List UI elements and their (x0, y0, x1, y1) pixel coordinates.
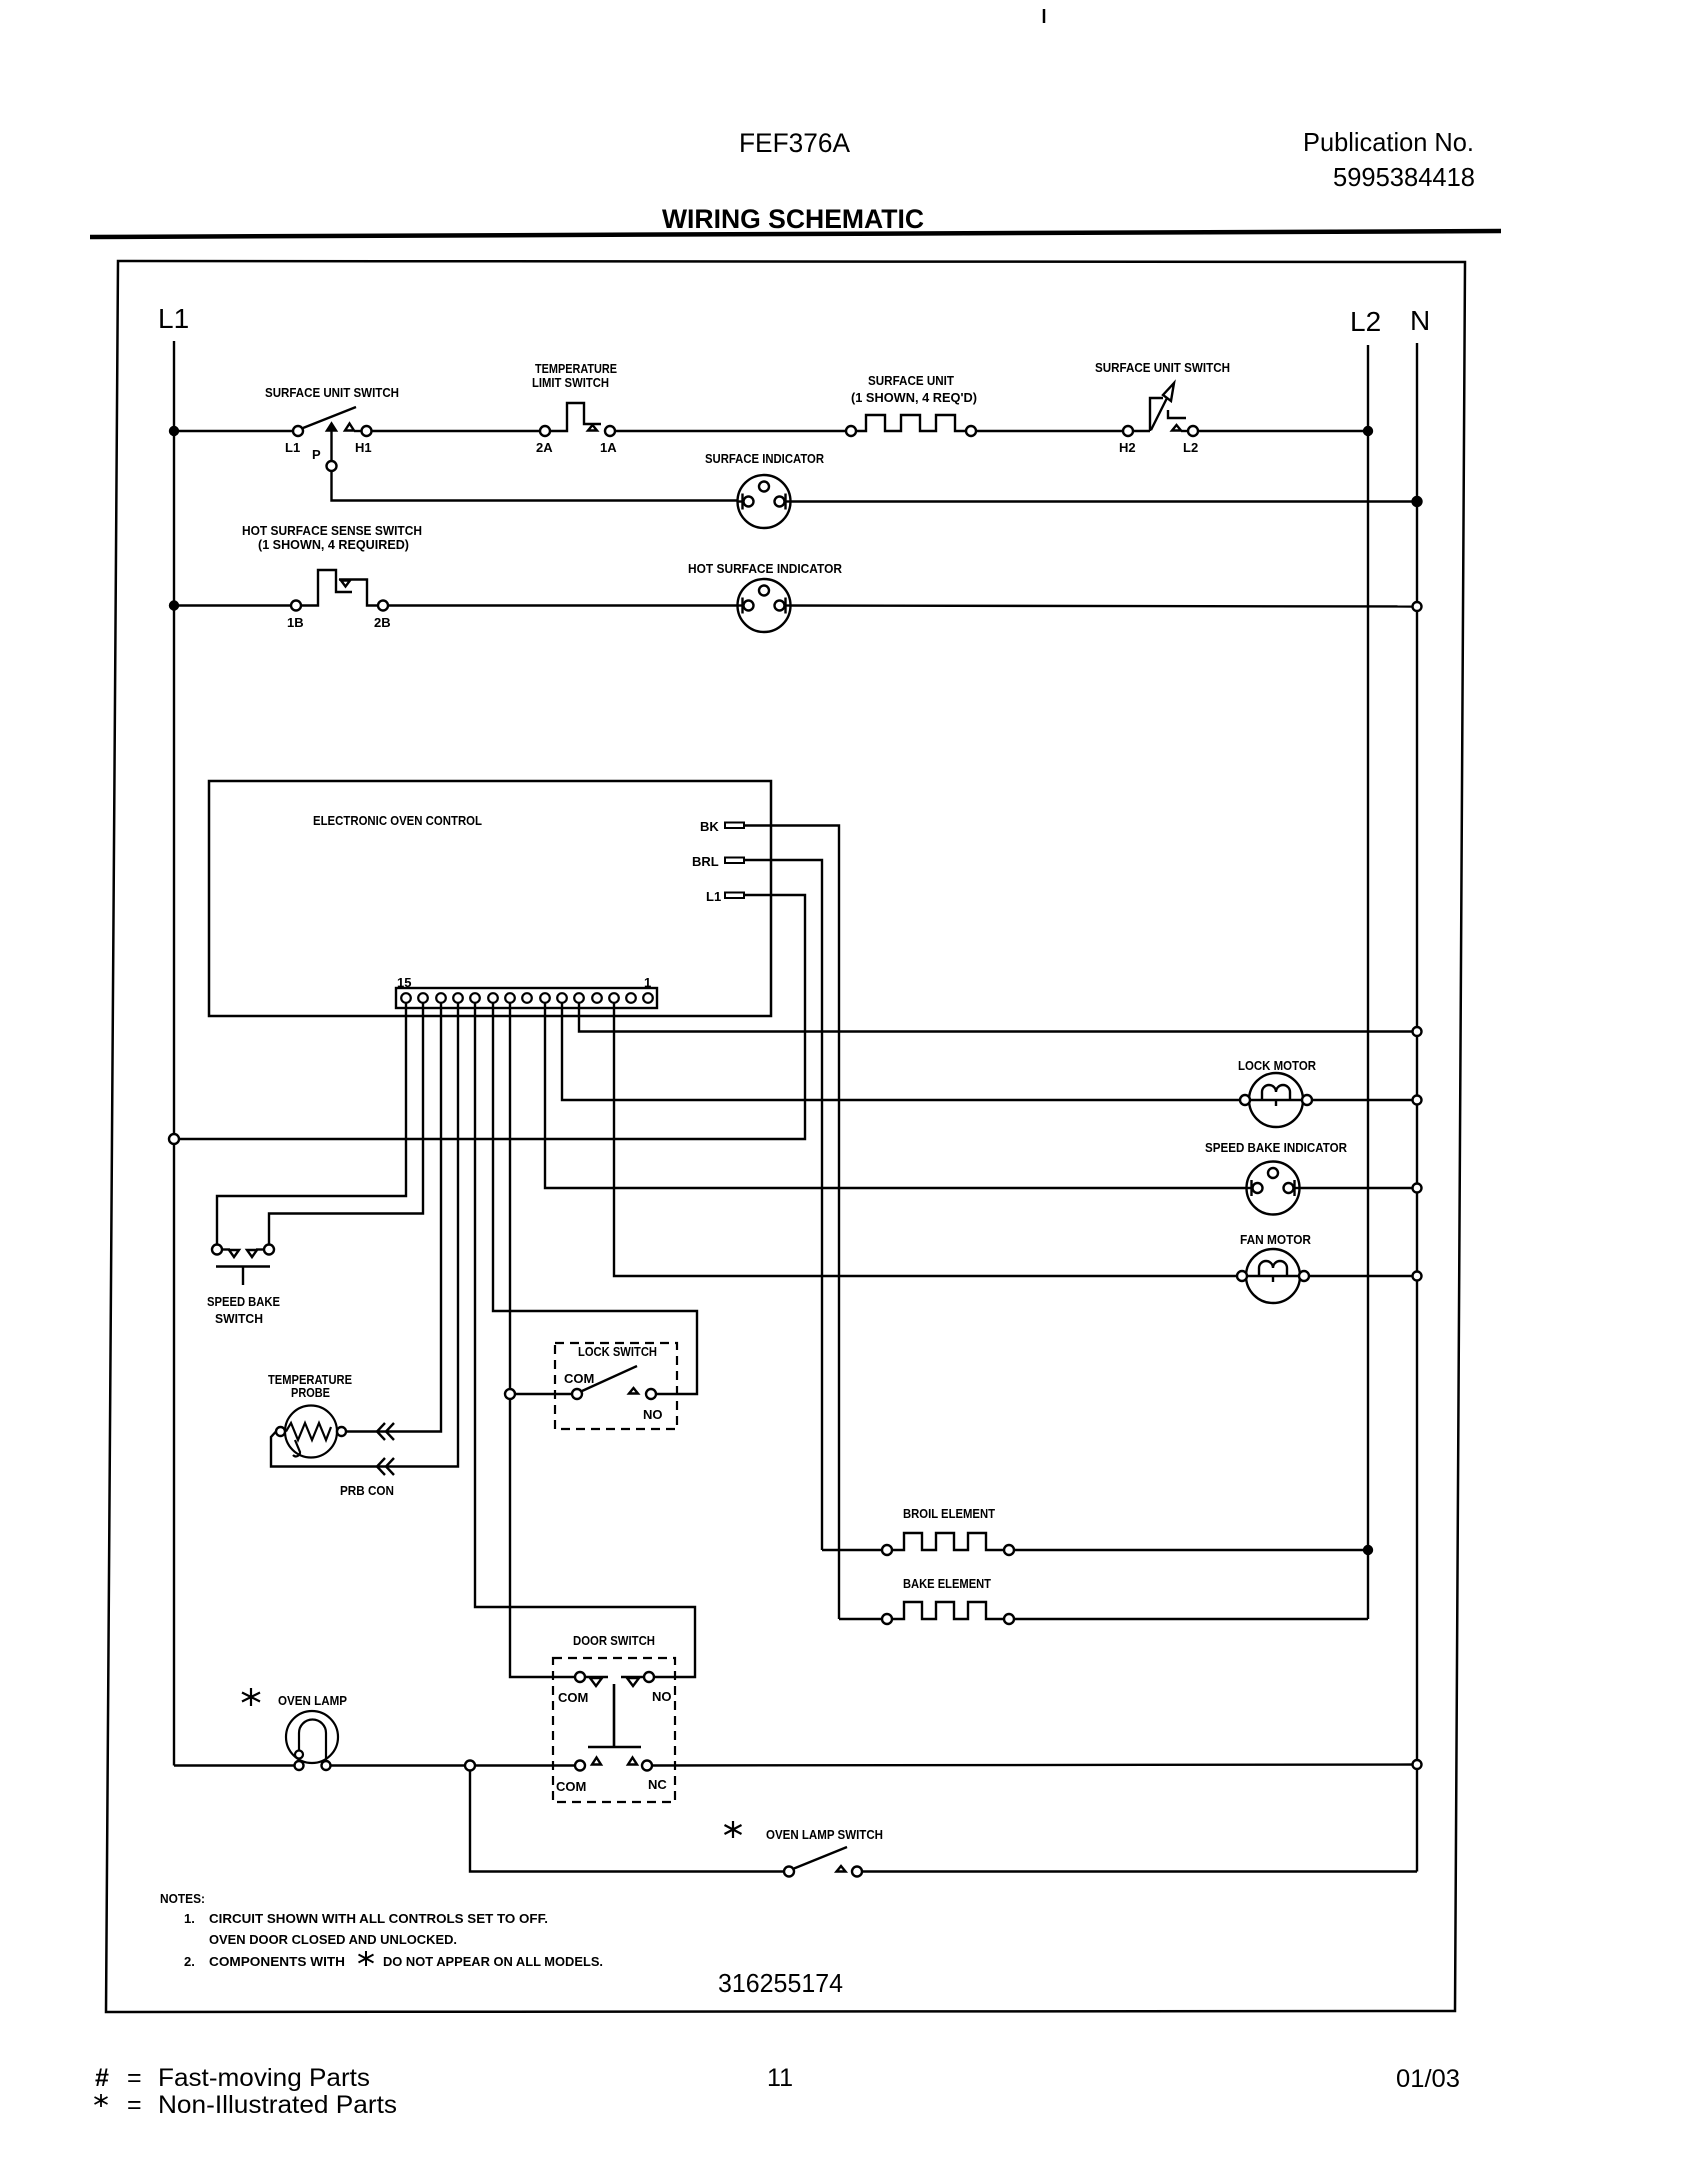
terminal 2A (540, 426, 550, 436)
svg-text:Fast-moving Parts: Fast-moving Parts (158, 2064, 370, 2092)
svg-text:L2: L2 (1183, 440, 1198, 455)
switch S1 terminal L1 (293, 426, 303, 436)
wire pin14 to speed bake switch right (269, 1003, 423, 1245)
broil element left terminal (882, 1545, 892, 1555)
terminal strip (396, 988, 657, 1008)
wire surface indicator to N (778, 500, 1417, 502)
junction circle N fan motor (1413, 1272, 1422, 1281)
svg-text:#: # (95, 2064, 109, 2092)
oven lamp switch left terminal (784, 1867, 794, 1877)
door switch housing (dashed) (553, 1658, 675, 1802)
wire pin11 to door switch NO (475, 1003, 695, 1677)
svg-text:LOCK MOTOR: LOCK MOTOR (1238, 1058, 1317, 1073)
svg-text:1A: 1A (600, 440, 617, 455)
svg-text:PROBE: PROBE (291, 1385, 330, 1400)
terminal L2 (1188, 426, 1198, 436)
junction dot L2 broil (1364, 1546, 1372, 1554)
wire pin12 to temperature probe left (271, 1003, 458, 1467)
terminal circle lock switch tap on pin9 wire (505, 1389, 515, 1399)
door switch top triangle left (590, 1678, 602, 1686)
svg-text:2A: 2A (536, 440, 553, 455)
temperature probe (276, 1406, 346, 1458)
surface unit right terminal (966, 426, 976, 436)
footer asterisk (95, 2094, 108, 2107)
svg-text:2.: 2. (184, 1954, 195, 1969)
svg-text:L2: L2 (1350, 306, 1381, 337)
lock switch NO terminal (646, 1389, 656, 1399)
wire BRL to broil left (822, 1549, 882, 1551)
svg-text:NOTES:: NOTES: (160, 1891, 205, 1906)
wire pin5 to N (579, 1003, 1417, 1032)
limit switch body (550, 403, 601, 431)
junction dot L1 row1 (170, 427, 178, 435)
speed bake switch actuator bar (216, 1267, 270, 1286)
wire 1A to surface unit (615, 430, 846, 432)
wire pin9 to door switch COM (510, 1003, 575, 1677)
hot surface switch moving contact (301, 570, 352, 606)
fan motor (1237, 1249, 1309, 1303)
svg-text:L1: L1 (706, 889, 721, 904)
connector chevrons probe right (377, 1423, 394, 1440)
wire hot surface indicator to N (778, 606, 1413, 607)
label temperature probe (268, 1372, 352, 1400)
door switch top contact stub right (621, 1676, 644, 1678)
svg-text:P: P (312, 447, 321, 462)
svg-text:SURFACE UNIT SWITCH: SURFACE UNIT SWITCH (265, 385, 399, 400)
wire BRL to broil element (744, 860, 822, 1550)
svg-text:FAN MOTOR: FAN MOTOR (1240, 1232, 1312, 1247)
svg-text:H1: H1 (355, 440, 372, 455)
svg-text:COM: COM (558, 1690, 588, 1705)
svg-text:CIRCUIT SHOWN WITH ALL CONTROL: CIRCUIT SHOWN WITH ALL CONTROLS SET TO O… (209, 1911, 548, 1926)
svg-text:WIRING SCHEMATIC: WIRING SCHEMATIC (662, 204, 924, 234)
notes block (160, 1891, 603, 1969)
junction circle N lock motor (1413, 1096, 1422, 1105)
svg-text:OVEN DOOR CLOSED AND UNLOCKED.: OVEN DOOR CLOSED AND UNLOCKED. (209, 1932, 457, 1947)
surface unit heating element (856, 415, 966, 431)
junction circle N lamp row (1413, 1760, 1422, 1769)
asterisk in note 2 (359, 1951, 374, 1966)
svg-text:BRL: BRL (692, 854, 719, 869)
label hot surface sense switch (242, 523, 422, 552)
door switch bottom NC terminal (642, 1761, 652, 1771)
svg-text:COMPONENTS WITH: COMPONENTS WITH (209, 1954, 345, 1969)
wire pin6 to lock motor (562, 1003, 1240, 1100)
door switch bottom triangle right (628, 1758, 637, 1765)
connector chevrons probe left return (377, 1458, 394, 1475)
terminal 2B (378, 601, 388, 611)
svg-text:1.: 1. (184, 1911, 195, 1926)
lock switch housing (dashed) (555, 1343, 677, 1429)
svg-text:Publication No.: Publication No. (1303, 127, 1474, 157)
svg-text:=: = (127, 2064, 142, 2092)
svg-text:BAKE ELEMENT: BAKE ELEMENT (903, 1576, 991, 1591)
svg-text:11: 11 (767, 2064, 793, 2092)
wire L2 terminal to L2 feeder (1198, 430, 1368, 432)
svg-text:1B: 1B (287, 615, 304, 630)
svg-text:01/03: 01/03 (1396, 2065, 1460, 2093)
surface indicator lamp (738, 475, 791, 528)
hot surface indicator lamp (738, 579, 791, 632)
junction circle N hot-surface return (1413, 602, 1422, 611)
bake element left terminal (882, 1614, 892, 1624)
lock motor (1240, 1073, 1312, 1127)
svg-text:SURFACE INDICATOR: SURFACE INDICATOR (705, 451, 825, 466)
svg-text:SWITCH: SWITCH (215, 1311, 263, 1326)
speed bake switch stub left (222, 1248, 230, 1250)
svg-text:H2: H2 (1119, 440, 1136, 455)
svg-text:PRB CON: PRB CON (340, 1483, 394, 1498)
svg-text:(1 SHOWN, 4 REQUIRED): (1 SHOWN, 4 REQUIRED) (258, 537, 409, 552)
wire surface unit to H2 (976, 430, 1123, 432)
terminal circle lamp-switch tap (465, 1761, 475, 1771)
door switch bottom triangle left (592, 1758, 601, 1765)
svg-text:LIMIT SWITCH: LIMIT SWITCH (532, 375, 609, 390)
wire bake to L2 (1014, 1618, 1368, 1620)
speed bake switch stub right (256, 1248, 264, 1250)
svg-text:SPEED BAKE: SPEED BAKE (207, 1294, 280, 1309)
switch S2 contact triangle (1172, 425, 1181, 431)
door switch top COM terminal (575, 1672, 585, 1682)
title underline (90, 231, 1501, 237)
svg-text:(1 SHOWN, 4 REQ'D): (1 SHOWN, 4 REQ'D) (851, 390, 977, 405)
svg-text:15: 15 (397, 975, 411, 990)
svg-text:5995384418: 5995384418 (1333, 162, 1475, 192)
wire lamp to junction (331, 1764, 576, 1766)
pin L1 connector (725, 893, 744, 899)
wire pin3 to fan motor (614, 1003, 1247, 1276)
svg-text:BROIL ELEMENT: BROIL ELEMENT (903, 1506, 995, 1521)
svg-text:FEF376A: FEF376A (739, 128, 850, 158)
oven lamp bulb (286, 1711, 338, 1770)
wire broil to L2 (1014, 1549, 1368, 1551)
door switch top contact stub left (585, 1676, 608, 1678)
strip pin circles (401, 993, 653, 1003)
wire tap down to lamp switch (470, 1771, 784, 1872)
svg-text:HOT SURFACE SENSE SWITCH: HOT SURFACE SENSE SWITCH (242, 523, 422, 538)
switch S2 seat (1168, 410, 1186, 418)
junction dot L2 row1 (1364, 427, 1372, 435)
svg-text:ELECTRONIC OVEN CONTROL: ELECTRONIC OVEN CONTROL (313, 813, 482, 828)
wire NC to N (652, 1765, 1417, 1766)
wire pin7 to speed bake indicator (545, 1003, 1259, 1188)
pin BK connector (725, 823, 744, 829)
hot surface switch fixed contact (339, 580, 378, 606)
wire triangle to L2 terminal (1181, 430, 1189, 432)
svg-text:1: 1 (644, 975, 651, 990)
wire lamp row L1 to lamp (174, 1764, 295, 1766)
wire BK to bake left (839, 1618, 882, 1620)
label surface unit (851, 373, 977, 405)
oven lamp switch right terminal (852, 1867, 862, 1877)
svg-text:COM: COM (556, 1779, 586, 1794)
surface unit left terminal (846, 426, 856, 436)
svg-text:COM: COM (564, 1371, 594, 1386)
page header (662, 127, 1475, 234)
wire lock motor to N (1312, 1099, 1413, 1101)
svg-text:SURFACE UNIT: SURFACE UNIT (868, 373, 954, 388)
wire pin10 to lock switch NO (493, 1003, 697, 1394)
svg-text:BK: BK (700, 819, 719, 834)
speed bake switch left terminal (212, 1245, 222, 1255)
wire 2B to hot surface indicator (388, 604, 750, 606)
svg-text:316255174: 316255174 (718, 1968, 843, 1998)
switch S1 arm (303, 407, 356, 428)
switch S2 bracket (1133, 398, 1163, 431)
wire lamp switch to N (862, 1870, 1417, 1872)
speed bake switch contact triangle b (247, 1250, 257, 1257)
wire H1 to 2A (372, 430, 541, 432)
svg-text:NC: NC (648, 1777, 667, 1792)
oven lamp switch contact triangle (837, 1866, 846, 1872)
wire speed bake indicator to N (1287, 1187, 1413, 1189)
svg-text:L1: L1 (285, 440, 300, 455)
wire L1 feeder vertical (173, 341, 175, 1766)
switch S1 terminal H1 (362, 426, 372, 436)
lock switch arm (582, 1366, 637, 1391)
svg-text:NO: NO (643, 1407, 663, 1422)
terminal 1A (605, 426, 615, 436)
wire row2 L1 to 1B (174, 604, 291, 606)
terminal circle P (327, 461, 337, 471)
svg-text:HOT SURFACE INDICATOR: HOT SURFACE INDICATOR (688, 561, 843, 576)
svg-text:2B: 2B (374, 615, 391, 630)
wire N feeder vertical (1416, 343, 1418, 1872)
svg-text:TEMPERATURE: TEMPERATURE (535, 361, 617, 376)
svg-text:DO NOT APPEAR ON ALL MODELS.: DO NOT APPEAR ON ALL MODELS. (383, 1954, 603, 1969)
bake heating element (892, 1602, 1004, 1619)
switch S2 arrow arm (1151, 394, 1169, 430)
switch S1 contact triangle b (345, 424, 354, 431)
wire fan motor to N (1309, 1275, 1413, 1277)
terminal circle on L1 feeder tap (169, 1134, 179, 1144)
wire triangle to H1 (354, 430, 362, 432)
wire P branch vertical (332, 431, 751, 501)
limit switch contact triangle (588, 425, 597, 431)
svg-text:NO: NO (652, 1689, 672, 1704)
svg-text:SPEED BAKE INDICATOR: SPEED BAKE INDICATOR (1205, 1140, 1348, 1155)
switch S2 arrowhead (1163, 383, 1174, 401)
svg-text:SURFACE UNIT SWITCH: SURFACE UNIT SWITCH (1095, 360, 1230, 375)
svg-text:OVEN LAMP SWITCH: OVEN LAMP SWITCH (766, 1827, 883, 1842)
door switch bottom COM terminal (575, 1761, 585, 1771)
label speed bake switch (207, 1294, 280, 1326)
oven lamp switch arm (794, 1847, 847, 1869)
door switch top triangle right (627, 1678, 639, 1686)
svg-text:=: = (127, 2091, 142, 2119)
junction dot L1 row2 (170, 602, 178, 610)
wire BK to bake element (744, 826, 839, 1620)
svg-text:DOOR SWITCH: DOOR SWITCH (573, 1633, 655, 1648)
wire L1 pin to L1 feeder (179, 895, 805, 1139)
svg-text:LOCK SWITCH: LOCK SWITCH (578, 1344, 657, 1359)
junction dot N surface-indicator return (1413, 497, 1422, 506)
terminal 1B (291, 601, 301, 611)
stray tick mark top center (1043, 9, 1046, 23)
lock switch contact triangle (629, 1388, 638, 1394)
speed bake switch right terminal (264, 1245, 274, 1255)
svg-text:L1: L1 (158, 303, 189, 334)
wire pin15 to speed bake switch left (217, 1003, 406, 1245)
pin BRL connector (725, 858, 744, 864)
broil element right terminal (1004, 1545, 1014, 1555)
label temperature limit switch (532, 361, 617, 390)
wire tap to lock COM (515, 1393, 572, 1395)
junction circle N pin5 (1413, 1027, 1422, 1036)
outer border box (106, 261, 1465, 2012)
switch S1 contact triangle a (327, 424, 336, 431)
bake element right terminal (1004, 1614, 1014, 1624)
speed bake switch contact triangle a (229, 1250, 239, 1257)
wire pin13 to temperature probe right (347, 1003, 441, 1432)
footer legend (95, 2064, 1460, 2119)
svg-text:N: N (1410, 305, 1430, 336)
svg-text:Non-Illustrated Parts: Non-Illustrated Parts (158, 2091, 397, 2119)
lock switch COM terminal (572, 1389, 582, 1399)
broil heating element (892, 1533, 1004, 1550)
wire L2 feeder vertical (1367, 345, 1369, 1619)
door switch actuator tee (588, 1684, 641, 1747)
hot surface switch contact triangle (341, 581, 350, 587)
wire row1 L1 to switch (174, 430, 293, 432)
speed bake indicator lamp (1247, 1162, 1300, 1215)
svg-text:OVEN LAMP: OVEN LAMP (278, 1693, 347, 1708)
terminal H2 (1123, 426, 1133, 436)
asterisk oven lamp (242, 1688, 260, 1706)
door switch top NO terminal (644, 1672, 654, 1682)
junction circle N speed bake indicator (1413, 1184, 1422, 1193)
electronic oven control box (209, 781, 771, 1016)
asterisk oven lamp switch (725, 1821, 742, 1838)
